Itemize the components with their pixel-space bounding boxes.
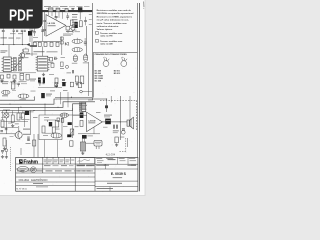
- driver transformer T7: [80, 102, 86, 112]
- svg-text:em pF salvo indicacao em: em pF salvo indicacao em con-: [97, 20, 130, 22]
- svg-text:BC 558: BC 558: [95, 80, 101, 82]
- wire can feed: [88, 62, 90, 96]
- wire stubs top row: [2, 35, 4, 45]
- handwriting cell box: [80, 158, 95, 164]
- trimmer CT1: [24, 48, 29, 52]
- border tick labels: [89, 13, 92, 16]
- rail V+: [0, 96, 35, 100]
- junction dots antenna wire: [3, 44, 4, 45]
- electrolytic C21: [25, 111, 34, 115]
- resistor R11: [70, 82, 73, 87]
- enclosure dashed top: [100, 99, 137, 101]
- wire input top: [1, 112, 29, 114]
- labels BF494: [63, 33, 73, 36]
- svg-text:e b c: e b c: [103, 57, 107, 59]
- wire speaker top: [129, 117, 131, 120]
- labels scatter top: [9, 37, 14, 40]
- wire conv riser: [42, 26, 44, 41]
- page bottom edge shadow: [0, 195, 145, 196]
- wire audio feed: [55, 96, 92, 98]
- svg-text:LA 4140: LA 4140: [88, 119, 95, 122]
- output electrolytic C29: [104, 115, 112, 125]
- tone control box: [39, 115, 62, 140]
- IF can T9: [66, 26, 70, 33]
- wire C31 to T8: [82, 139, 84, 142]
- capacitor C16: [62, 79, 67, 83]
- transistor pinout TO-92: [103, 61, 109, 67]
- transistor Q3: [70, 26, 75, 33]
- input electrolytic C28: [80, 112, 84, 118]
- capacitor C7: [66, 13, 69, 20]
- FM IF amplifier U1: [46, 15, 66, 37]
- radio IC U3: [37, 56, 48, 71]
- label Q2: [23, 129, 30, 130]
- pilot circle: [80, 90, 93, 93]
- no desenho label: [113, 176, 123, 179]
- title block verticals: [42, 157, 44, 173]
- tuning gang VC1b: [19, 58, 22, 71]
- riser drop: [106, 99, 108, 112]
- svg-text:220V/50Hz no aparelho operac: 220V/50Hz no aparelho operacional: [97, 13, 134, 15]
- ground G5: [1, 79, 3, 80]
- resistor R20: [55, 121, 59, 128]
- wire Q1 to U3: [25, 53, 38, 55]
- capacitor C30: [113, 125, 119, 133]
- resistor R23: [57, 118, 60, 121]
- junction lamp: [66, 65, 69, 68]
- riser drop 3: [119, 96, 121, 140]
- label cluster U1: [66, 31, 73, 32]
- risers up: [60, 92, 62, 104]
- ground G8: [76, 82, 78, 83]
- resistor R10: [80, 76, 84, 84]
- resistor R16: [21, 113, 24, 119]
- wire amp bottom: [78, 133, 100, 135]
- mic cable: [5, 140, 7, 149]
- capacitor C3: [21, 30, 26, 31]
- label MIC: [3, 110, 10, 111]
- ferrite antenna L5: [18, 94, 29, 100]
- capacitor C25: [0, 131, 3, 132]
- diode D1: [65, 42, 68, 45]
- wire box risers: [44, 140, 46, 158]
- labels amp in: [79, 105, 87, 106]
- capacitor C12: [54, 57, 58, 60]
- IF transformer T1: [78, 7, 82, 19]
- sheet top border band: [42, 10, 93, 12]
- wire gang bottom: [0, 72, 36, 74]
- wire osc column: [31, 45, 33, 56]
- svg-text:radio em FM: radio em FM: [100, 34, 113, 37]
- IF can T5: [73, 55, 77, 62]
- svg-text:COLUNA: COLUNA: [19, 179, 30, 182]
- svg-text:E- 0039 S: E- 0039 S: [111, 172, 127, 176]
- date oval: [17, 166, 28, 172]
- svg-text:BD 912: BD 912: [114, 73, 120, 75]
- volume pot P1: [11, 81, 15, 89]
- pinout box frame: [93, 51, 137, 53]
- ground G4: [82, 152, 84, 153]
- label Q1: [26, 52, 30, 55]
- electrolytic C13: [38, 78, 41, 83]
- transistor Q2: [15, 132, 22, 139]
- coil L6: [60, 113, 69, 117]
- ground G6: [14, 79, 16, 80]
- page corner fold mark: [143, 2, 145, 8]
- wire input mid: [1, 121, 28, 123]
- svg-text:e b c: e b c: [121, 57, 125, 59]
- filter CF5: [56, 42, 59, 46]
- resistor R9: [75, 76, 78, 82]
- wire tuner mid: [61, 41, 63, 55]
- IF can T6: [83, 54, 87, 62]
- capacitor C11: [50, 58, 53, 62]
- ground G7: [55, 84, 57, 85]
- rail stubs down: [2, 111, 4, 121]
- ferrite antenna L4: [2, 90, 10, 96]
- ground G1: [43, 73, 45, 74]
- resistor R19: [42, 126, 45, 133]
- power amplifier U4: [87, 112, 103, 131]
- enclosure dashed right: [136, 100, 138, 130]
- wire mic chain: [5, 121, 7, 134]
- right row2 labels: [104, 164, 109, 167]
- labels amp scatter: [103, 126, 108, 129]
- connector plug: [5, 149, 8, 155]
- svg-text:PDF: PDF: [9, 6, 34, 24]
- capacitor C18: [39, 83, 45, 86]
- svg-text:Resistores em OHMS, capacit: Resistores em OHMS, capacitores: [97, 16, 133, 19]
- capacitor C23: [1, 151, 4, 154]
- resistor R5: [7, 74, 10, 78]
- resistor R7: [26, 74, 29, 80]
- wire antenna link: [10, 92, 18, 96]
- resistor R25: [80, 120, 83, 126]
- wire pair down: [33, 134, 35, 157]
- svg-text:Valores tipicos.: Valores tipicos.: [97, 28, 113, 31]
- boucherot network: [121, 129, 125, 134]
- right header cells: [97, 159, 104, 162]
- wire emitter: [20, 148, 22, 155]
- title block horizontals: [16, 163, 95, 165]
- riser drop 2: [110, 96, 112, 102]
- capacitor C20: [17, 83, 20, 86]
- IF can T2: [48, 8, 53, 12]
- output transformer T8: [80, 142, 85, 151]
- junction dots amp: [106, 98, 107, 99]
- tuning gang VC1a: [13, 58, 16, 71]
- capacitor C35: [43, 12, 46, 36]
- label input: [19, 116, 23, 119]
- svg-text:voltimetro eletronico.: voltimetro eletronico.: [97, 25, 120, 28]
- ground G9: [12, 124, 14, 125]
- electrolytic C14: [43, 78, 45, 84]
- tuning arrow: [27, 43, 30, 45]
- svg-text:Frahm: Frahm: [23, 160, 38, 166]
- rail B: [0, 102, 95, 108]
- resistor R3: [79, 21, 82, 27]
- resistor R22: [33, 140, 36, 146]
- label filter text: [34, 51, 45, 52]
- wire Q2 collector: [18, 126, 20, 132]
- capacitor C4: [33, 29, 35, 36]
- svg-text:radio em AM: radio em AM: [100, 42, 113, 45]
- filter CF1: [33, 42, 36, 46]
- riser drop 4: [129, 96, 131, 117]
- substitui row: [107, 183, 122, 184]
- resistor R21: [3, 138, 6, 146]
- rail A: [0, 99, 107, 104]
- ruler tick text above band: [44, 5, 51, 8]
- resistor R27: [60, 62, 64, 69]
- capacitor C2: [13, 29, 19, 32]
- electrolytic C27: [68, 122, 72, 125]
- inner right frame border: [136, 3, 138, 157]
- label CF row: [30, 45, 37, 47]
- transistor pinout TO-126: [121, 61, 127, 67]
- substituido row: [97, 188, 114, 189]
- svg-text:ELETRÔNICO: ELETRÔNICO: [31, 179, 47, 182]
- checked-by band: [77, 165, 86, 166]
- electrolytic C31: [82, 135, 93, 139]
- row2 cell texts: [44, 164, 51, 167]
- capacitor C32: [51, 63, 54, 67]
- label under U3: [30, 79, 36, 80]
- resistor network R28: [60, 37, 63, 44]
- resistor R6: [13, 75, 16, 79]
- scan speckle noise: [45, 38, 48, 41]
- electrolytic C4b: [28, 29, 32, 38]
- label R1: [0, 50, 7, 51]
- checkbox AM note: [95, 40, 98, 43]
- svg-text:trario. Tensoes medidas com: trario. Tensoes medidas com: [97, 22, 127, 25]
- ground G2: [5, 155, 7, 156]
- ground G3: [116, 143, 118, 144]
- control label column: [72, 14, 78, 15]
- svg-text:411 054: 411 054: [106, 152, 116, 156]
- electrolytic C10: [20, 73, 24, 80]
- wire amp out: [102, 121, 127, 123]
- labels scatter bottom: [8, 122, 13, 125]
- junction dots rails: [9, 104, 10, 105]
- checkbox FM note: [95, 32, 98, 35]
- filter CF4: [50, 42, 53, 46]
- capacitor C24: [5, 129, 8, 130]
- gang arrow: [13, 58, 23, 70]
- resistor R15: [17, 113, 20, 120]
- capacitor C1: [2, 29, 5, 35]
- power switch: [105, 105, 108, 108]
- filter CF2: [38, 42, 41, 46]
- row3 header dashes: [17, 170, 24, 171]
- U1 supply stubs: [48, 12, 50, 15]
- resistor R18: [52, 127, 55, 133]
- capacitor C6: [55, 16, 58, 20]
- left mid row marks: [78, 170, 86, 171]
- wire box top ext: [62, 114, 80, 116]
- wire battery drop: [127, 138, 129, 147]
- enclosure dashed step: [125, 138, 127, 151]
- resistor R24: [61, 118, 64, 122]
- filter CF3: [44, 42, 47, 46]
- capacitor C26: [27, 137, 30, 141]
- electrolytic C17: [62, 82, 65, 86]
- outer right frame border: [139, 3, 141, 191]
- resistor R14: [11, 115, 14, 122]
- resistor R12: [78, 82, 81, 87]
- ground G10: [4, 147, 6, 148]
- desenho header dashes: [96, 165, 106, 166]
- wire osc riser: [31, 28, 33, 45]
- title block outer frame: [16, 157, 138, 191]
- rail C: [0, 104, 86, 111]
- resistor R8: [55, 78, 58, 84]
- capacitor C33: [84, 38, 87, 46]
- resistor R4: [1, 75, 4, 79]
- varactor arrow: [61, 37, 63, 56]
- page right edge shadow: [145, 0, 146, 196]
- microphone MIC1: [4, 113, 9, 121]
- IF can T3: [56, 8, 60, 12]
- IF can T4: [65, 9, 68, 12]
- electrolytic C8: [74, 22, 77, 28]
- scan background: [0, 0, 149, 198]
- Frahm logo mark: [19, 159, 23, 163]
- resistor R2: [70, 20, 73, 26]
- transistor Q1: [20, 53, 25, 58]
- labels under ICs: [0, 81, 8, 82]
- resistor R29: [70, 141, 73, 146]
- coil L2: [72, 38, 82, 44]
- paper page: [0, 0, 145, 195]
- electrolytic C22: [49, 122, 52, 126]
- svg-text:Resistores medidos com rede de: Resistores medidos com rede de: [97, 9, 132, 12]
- resistor R13: [55, 82, 58, 86]
- loudspeaker SP1: [127, 120, 130, 126]
- capacitor C15: [72, 70, 73, 73]
- electrolytic C19: [41, 93, 52, 98]
- right header sub-row: [96, 157, 102, 160]
- svg-text:PINAGEM DOS TRANSISTORES: PINAGEM DOS TRANSISTORES: [95, 53, 128, 56]
- model cell: [33, 183, 43, 184]
- wire amp input: [73, 114, 87, 116]
- svg-text:LA 1150: LA 1150: [48, 22, 56, 25]
- stamp flower: [30, 167, 36, 173]
- coil L7: [51, 133, 62, 138]
- shield dashed: [10, 147, 12, 171]
- PDF badge: [0, 0, 43, 29]
- wire U3 feed: [42, 46, 44, 56]
- revision cells text: [44, 159, 47, 162]
- trimpot P2: [70, 129, 74, 135]
- wire mixer: [72, 108, 74, 138]
- wire filter row: [34, 40, 61, 42]
- wire det row: [38, 87, 62, 89]
- wire T8 to jack: [86, 142, 94, 144]
- approval signature: [78, 160, 91, 162]
- wire tone links: [44, 119, 56, 121]
- wire AM antenna: [0, 44, 27, 46]
- wire bus right: [86, 26, 88, 56]
- AM radio IC U2: [3, 57, 11, 72]
- svg-text:M. Nº 58.50: M. Nº 58.50: [16, 188, 27, 191]
- resistor R17: [1, 120, 4, 127]
- labels T5 T6: [72, 62, 78, 65]
- electrolytic C34: [67, 134, 71, 137]
- notes column divider: [91, 3, 93, 100]
- ground G11: [2, 155, 4, 156]
- coil L3: [72, 48, 82, 52]
- label L1 OSC: [0, 37, 7, 38]
- capacitor C9: [84, 17, 87, 26]
- output jack J1: [94, 140, 102, 149]
- resistor R26: [115, 137, 118, 143]
- capacitor C5: [72, 9, 74, 10]
